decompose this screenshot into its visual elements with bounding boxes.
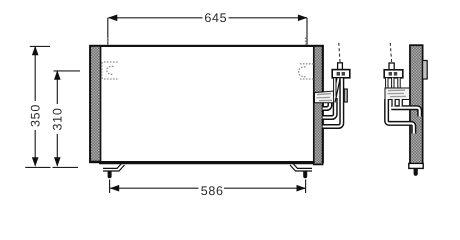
side view: core slab [410, 45, 423, 164]
svg-text:350: 350 [29, 104, 43, 127]
svg-text:310: 310 [51, 108, 65, 131]
side view: lower pipe run [387, 99, 414, 134]
right foot bracket [290, 163, 312, 172]
middle assembly: cap fitting [332, 70, 350, 78]
dimension 645 right arrow [298, 15, 308, 22]
side view: upper pipe run [391, 108, 419, 117]
side view: cap fitting [384, 70, 403, 78]
middle assembly: receiver bracket [315, 91, 334, 103]
right mounting clip (dashed) [299, 38, 314, 80]
dimension 310 down arrow [54, 157, 61, 167]
side view: drier bottom cap [409, 163, 423, 168]
right foot pin [303, 171, 307, 178]
svg-text:645: 645 [204, 11, 227, 25]
left side plate [90, 46, 100, 162]
dimension 350 down arrow [32, 157, 39, 167]
side view: connector pipe V1 [391, 99, 395, 107]
side view: receiver bracket [385, 88, 410, 100]
dimension 586 left arrow [110, 185, 120, 192]
left foot bracket [103, 163, 125, 172]
dimension 645 line [108, 18, 307, 45]
middle assembly: pipe A from cap [333, 78, 336, 96]
side view: connector pipe V2 [399, 99, 403, 107]
dimension 645 left arrow [108, 15, 118, 22]
side view: dashed centerline [390, 42, 391, 62]
middle assembly: pipe middle [323, 98, 336, 118]
dimension 310 up arrow [54, 70, 61, 80]
left mounting clip (dashed) [102, 38, 118, 80]
middle assembly: outer pipe [323, 78, 342, 126]
middle assembly: inlet stub [338, 63, 343, 70]
right side plate [314, 46, 323, 164]
dimension 586 right arrow [297, 185, 307, 192]
middle assembly: pipe inner [323, 99, 330, 109]
dimension 310 line [53, 71, 81, 167]
condenser core outline [90, 46, 323, 162]
svg-text:586: 586 [201, 184, 224, 198]
side view: pipes from cap [387, 78, 399, 89]
middle assembly: dashed centerline [339, 41, 340, 63]
middle assembly: small pipe bracket [344, 89, 347, 102]
dimension 586 line [110, 180, 306, 194]
side view: inlet stub [389, 63, 394, 70]
dimension 350 line [25, 46, 50, 167]
middle assembly: diagonal pipe [334, 78, 339, 102]
left foot pin [108, 171, 112, 178]
side view: right clip [423, 61, 428, 80]
side view: drier pin [414, 168, 418, 176]
dimension 350 up arrow [32, 46, 39, 56]
core bottom tank line [99, 163, 314, 165]
